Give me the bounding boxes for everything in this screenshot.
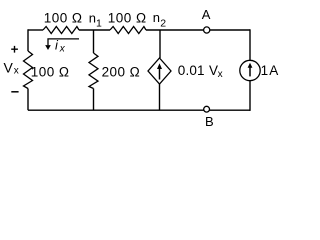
wire from R2 past node n2 to top-right corner <box>146 29 250 31</box>
svg-text:200 Ω: 200 Ω <box>102 65 141 80</box>
wire n2 branch upper <box>159 30 161 58</box>
svg-text:n: n <box>89 10 96 25</box>
svg-text:A: A <box>202 7 211 22</box>
wire left branch upper <box>27 29 29 51</box>
svg-text:n: n <box>153 10 160 25</box>
wire left branch lower <box>27 89 29 111</box>
wire n1 branch upper <box>93 30 95 53</box>
svg-text:V: V <box>4 60 14 76</box>
value label 100 ohm for R2 <box>108 11 147 26</box>
svg-text:100 Ω: 100 Ω <box>108 11 147 26</box>
bottom wire <box>28 109 250 111</box>
resistor 100 ohm vertical left <box>24 51 33 89</box>
label ix <box>55 38 66 55</box>
value label 200 ohm <box>102 65 141 80</box>
label Vx <box>4 60 19 77</box>
terminal node B <box>204 106 210 112</box>
current arrow ix <box>45 39 79 50</box>
minus sign of Vx <box>11 91 18 93</box>
svg-text:2: 2 <box>160 17 166 29</box>
wire right branch upper <box>249 29 251 60</box>
wire n2 branch lower <box>159 84 161 110</box>
terminal node A <box>204 27 210 33</box>
resistor 200 ohm vertical <box>89 53 98 89</box>
svg-text:x: x <box>218 69 223 80</box>
wire n1 branch lower <box>93 89 95 111</box>
node n1 label <box>89 10 102 29</box>
plus sign of Vx <box>11 46 18 53</box>
value label 0.01 Vx <box>178 63 223 80</box>
value label 100 ohm for R1 <box>44 11 83 26</box>
resistor R1 100 ohm horizontal <box>43 27 79 34</box>
svg-text:100 Ω: 100 Ω <box>31 65 70 80</box>
dependent current source diamond 0.01 Vx <box>148 58 171 84</box>
node n2 label <box>153 10 166 29</box>
independent current source 1 A <box>240 60 260 80</box>
svg-text:1: 1 <box>96 17 102 29</box>
value label 100 ohm left <box>31 65 70 80</box>
node A label <box>202 7 211 22</box>
svg-text:i: i <box>55 38 59 53</box>
wire top from left corner to resistor R1 <box>28 29 43 31</box>
svg-text:0.01: 0.01 <box>178 63 205 78</box>
svg-text:x: x <box>59 44 66 55</box>
wire right branch lower <box>249 81 251 111</box>
wire from R1 to node n1 <box>79 29 110 31</box>
svg-text:100 Ω: 100 Ω <box>44 11 83 26</box>
svg-text:B: B <box>205 114 214 129</box>
resistor R2 100 ohm horizontal <box>110 27 146 34</box>
svg-text:1: 1 <box>261 63 269 78</box>
svg-text:x: x <box>14 66 19 77</box>
svg-text:A: A <box>269 63 278 78</box>
node B label <box>205 114 214 129</box>
value label 1 A <box>261 63 279 78</box>
